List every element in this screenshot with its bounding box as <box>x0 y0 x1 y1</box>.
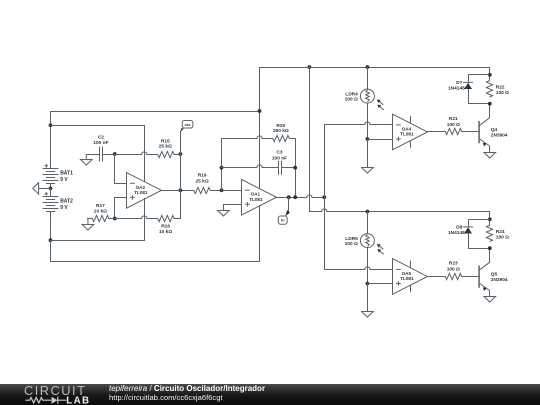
svg-text:9 V: 9 V <box>60 177 68 183</box>
ground C2 <box>81 154 93 165</box>
wire LDR5 to plus node <box>367 247 369 284</box>
svg-text:100 nF: 100 nF <box>93 140 108 146</box>
capacitor C2 <box>93 134 108 161</box>
svg-text:TL081: TL081 <box>400 132 414 137</box>
wire +9V rail top <box>50 111 260 113</box>
resistor R16 10k <box>158 215 174 235</box>
svg-text:TL081: TL081 <box>400 276 414 281</box>
node D7 top <box>488 73 492 77</box>
svg-text:http://circuitlab.com/cc6cxja6: http://circuitlab.com/cc6cxja6f6cgt <box>109 393 223 402</box>
svg-text:R21: R21 <box>449 116 458 122</box>
ground battery midpoint <box>33 183 39 195</box>
svg-text:1N4148: 1N4148 <box>448 230 465 236</box>
svg-text:100 Ω: 100 Ω <box>345 241 358 247</box>
svg-text:100 Ω: 100 Ω <box>447 122 460 128</box>
wire feedback left connector <box>221 138 223 191</box>
svg-text:R22: R22 <box>496 84 505 90</box>
svg-text:100 Ω: 100 Ω <box>496 234 509 240</box>
node D7 bottom <box>488 102 492 106</box>
svg-text:25 kΩ: 25 kΩ <box>159 144 172 150</box>
resistor R24 100 <box>486 225 509 241</box>
wire plus node to OA4 <box>367 139 393 141</box>
op-amp OA2 TL081 <box>127 173 162 209</box>
svg-text:C2: C2 <box>98 134 104 140</box>
wire rail to LDR4 <box>367 67 369 90</box>
wire D8 branch bottom <box>468 233 490 249</box>
svg-text:R16: R16 <box>161 224 170 230</box>
svg-text:R20: R20 <box>276 123 285 129</box>
wire +9V top rail right <box>259 67 490 69</box>
svg-text:250 kΩ: 250 kΩ <box>273 128 289 134</box>
wire R21 to Q4 base <box>461 131 480 133</box>
wire R20 right <box>289 138 296 140</box>
wire R17 to node <box>108 218 115 220</box>
wire +9V drop to lower rail <box>309 67 311 212</box>
node +9V to OA1 <box>258 109 262 113</box>
wire OA2 plus to R17 node <box>114 197 126 219</box>
wire R19 to OA1 minus <box>210 190 242 192</box>
wire -9V rail to OA2 V- <box>50 240 145 242</box>
wire left vertical from rail to BAT1 <box>50 111 52 169</box>
diode D8 1N4148 <box>448 224 473 236</box>
resistor R19 25k <box>194 172 210 193</box>
op-amp OA4 TL081 <box>393 114 428 150</box>
footer title text <box>109 384 265 393</box>
svg-text:C3: C3 <box>276 150 282 156</box>
logo CIRCUIT <box>24 383 86 398</box>
svg-text:LDR5: LDR5 <box>345 236 358 242</box>
wire OA2 V- pin <box>144 198 146 241</box>
node LDR4 top <box>366 65 370 69</box>
transistor Q5 2N3904 <box>479 262 508 291</box>
wire OA4 output <box>427 131 446 133</box>
node D8 bottom <box>488 246 492 250</box>
logo LAB <box>66 395 90 405</box>
ground OA1 plus <box>218 204 242 216</box>
wire D8 branch top <box>468 219 490 227</box>
wire Q5 collector up <box>489 248 491 263</box>
node OA5 plus <box>366 282 370 286</box>
wire Q4 collector up <box>489 103 491 118</box>
wire tri bus to OA4 minus <box>324 122 393 125</box>
wire osc vertical <box>180 131 182 219</box>
node feedback C3 left <box>220 166 224 170</box>
svg-text:osc: osc <box>184 123 190 127</box>
node +9V rail top <box>308 65 312 69</box>
svg-text:10 kΩ: 10 kΩ <box>159 229 172 235</box>
svg-text:tepiferreira / Circuito Oscila: tepiferreira / Circuito Oscilador/Integr… <box>109 384 265 393</box>
footer bar <box>0 384 540 405</box>
ground LDR4 <box>362 168 374 174</box>
wire OA1 output <box>276 195 325 198</box>
battery BAT1 9V <box>43 164 74 189</box>
wire BAT2 to bottom rail <box>50 240 52 262</box>
wire +9V lower rail right <box>309 209 490 212</box>
wire R23 to Q5 base <box>461 276 480 278</box>
wire midpoint to ground <box>38 188 51 190</box>
svg-text:100 nF: 100 nF <box>272 156 287 162</box>
wire D7 branch top <box>468 74 490 83</box>
wire plus node to OA5 <box>367 283 393 285</box>
capacitor C3 <box>272 150 287 175</box>
wire node A to R15 <box>114 152 158 155</box>
svg-text:R24: R24 <box>496 229 505 235</box>
wire C3 feedback <box>221 165 279 168</box>
svg-text:D7: D7 <box>456 80 462 86</box>
resistor R21 100 <box>445 116 461 134</box>
wire C3 right <box>281 167 296 169</box>
wire plus node to ground <box>367 139 369 167</box>
svg-text:D8: D8 <box>456 224 462 230</box>
battery BAT2 9V <box>43 189 74 241</box>
ground Q5 emitter <box>484 297 496 303</box>
svg-text:R23: R23 <box>449 261 458 267</box>
ground Q4 emitter <box>484 153 496 159</box>
resistor R15 25k <box>158 139 174 158</box>
svg-text:TL081: TL081 <box>249 197 263 202</box>
svg-text:R19: R19 <box>198 172 207 178</box>
node A (C2/R15/OA2-) <box>113 152 117 156</box>
node R15/osc junction <box>179 152 183 156</box>
wire R16 to output <box>174 218 181 220</box>
node +9V branch to OA2 V+ <box>49 123 53 127</box>
wire feedback right connector <box>295 138 297 198</box>
node R17/R16/OA2+ <box>113 217 117 221</box>
svg-text:R17: R17 <box>96 203 105 209</box>
wire ground to R17 <box>87 218 93 220</box>
wire node A down to OA2 minus <box>114 154 126 184</box>
photoresistor LDR4 100 <box>345 89 384 110</box>
transistor Q4 2N3904 <box>479 118 508 147</box>
wire tri bus vertical <box>324 124 326 270</box>
wire plus node to ground LDR5 <box>367 283 369 312</box>
svg-text:TL081: TL081 <box>134 190 148 195</box>
node feedback C3 right <box>293 166 297 170</box>
wire R15 to osc node <box>174 154 181 156</box>
svg-text:Q4: Q4 <box>491 127 498 133</box>
resistor R17 10k <box>92 203 108 222</box>
wire Q5 emitter to ground <box>489 290 491 297</box>
svg-text:LAB: LAB <box>66 395 90 405</box>
wire LDR4 to plus node <box>367 103 369 139</box>
wire OA1 V- pin <box>259 205 261 262</box>
op-amp OA5 TL081 <box>393 259 428 295</box>
svg-text:2N3904: 2N3904 <box>491 277 508 283</box>
svg-text:Q5: Q5 <box>491 271 498 277</box>
node OA4 plus <box>366 137 370 141</box>
wire C2 to node A <box>102 154 115 156</box>
svg-text:BAT1: BAT1 <box>60 171 73 177</box>
wire D7 branch bottom <box>468 89 490 104</box>
logo squiggle resistor+diode <box>25 397 66 404</box>
node D8 top <box>488 217 492 221</box>
node battery midpoint <box>49 187 53 191</box>
node LDR5 top <box>366 210 370 214</box>
svg-text:2N3904: 2N3904 <box>491 132 508 138</box>
node output to comparators <box>322 195 326 199</box>
wire OA2 output <box>160 190 194 192</box>
svg-text:BAT2: BAT2 <box>60 199 73 205</box>
wire tri bus to OA5 minus <box>324 267 393 270</box>
ground R17 <box>82 219 94 231</box>
wire R20 feedback <box>221 136 273 139</box>
photoresistor LDR5 100 <box>345 234 384 255</box>
diode D7 1N4148 <box>448 80 473 92</box>
wire rail to LDR5 <box>367 211 369 234</box>
flag osc <box>180 121 193 133</box>
svg-text:10 kΩ: 10 kΩ <box>94 208 107 214</box>
wire OA1 V+ pin <box>259 67 261 189</box>
svg-text:100 Ω: 100 Ω <box>345 97 358 103</box>
wire +9V rail corner down <box>489 67 491 81</box>
svg-text:25 kΩ: 25 kΩ <box>196 178 209 184</box>
wire +9V rail to OA2 <box>50 125 145 127</box>
op-amp OA1 TL081 <box>242 179 277 215</box>
wire OA5 output <box>427 276 446 278</box>
svg-text:9 V: 9 V <box>60 205 68 211</box>
wire node to R16 <box>114 216 158 219</box>
svg-text:LDR4: LDR4 <box>345 91 358 97</box>
resistor R20 250k <box>273 123 289 142</box>
node -9V branch <box>49 238 53 242</box>
wire Q4 emitter to ground <box>489 146 491 152</box>
resistor R22 100 <box>486 81 509 97</box>
svg-text:100 Ω: 100 Ω <box>447 266 460 272</box>
svg-text:tri: tri <box>281 219 285 223</box>
footer url text <box>109 393 223 402</box>
svg-text:100 Ω: 100 Ω <box>496 90 509 96</box>
wire ground to C2 <box>86 154 100 156</box>
ground LDR5 <box>362 312 374 318</box>
node feedback/output <box>293 195 297 199</box>
wire bottom -9V rail <box>50 261 260 263</box>
node OA1 minus <box>220 188 224 192</box>
wire lower rail corner down <box>489 211 491 226</box>
node OA2 output <box>179 188 183 192</box>
node tri tap <box>287 195 291 199</box>
wire OA2 V+ pin <box>144 125 146 182</box>
resistor R23 100 <box>445 261 461 280</box>
flag tri <box>278 197 290 224</box>
svg-text:1N4148: 1N4148 <box>448 85 465 91</box>
